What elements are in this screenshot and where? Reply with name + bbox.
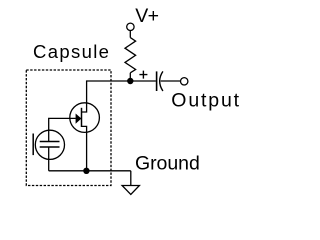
terminal V+ [127, 23, 134, 30]
terminal Output [181, 78, 188, 85]
svg-text:V+: V+ [135, 5, 158, 27]
ground symbol [122, 186, 139, 195]
transistor Q1 source lead [82, 126, 87, 132]
node B junction dot [83, 168, 89, 174]
transistor Q1 channel bar [81, 108, 83, 127]
transistor Q1 gate arrowhead [76, 114, 82, 124]
electret element top plate lead [48, 130, 50, 141]
electret element top plate [40, 141, 60, 143]
electret element membrane bar [32, 134, 34, 156]
node A junction dot [127, 78, 133, 84]
transistor Q1 drain lead [82, 103, 87, 112]
electret element bottom plate [40, 146, 60, 148]
wire transistor Q1 source to ground rail [86, 132, 88, 170]
wire node A to capacitor C1 [130, 80, 156, 82]
label + polarity of capacitor C1 [139, 71, 147, 79]
resistor R1 [125, 38, 136, 73]
wire transistor Q1 gate to electret element [49, 118, 76, 130]
capacitor C1 positive plate [156, 71, 158, 91]
capacitor C1 negative curved plate [160, 71, 163, 91]
svg-text:Output: Output [171, 89, 241, 111]
capsule dashed enclosure box [26, 70, 111, 186]
wire from resistor R1 to node A [129, 73, 131, 81]
ground rail wire [49, 170, 131, 172]
wire ground rail to ground symbol [130, 171, 132, 186]
transistor Q1 envelope circle [70, 103, 100, 133]
wire electret element bottom plate to ground rail [48, 147, 50, 171]
electret capsule element ME1 envelope circle [35, 130, 64, 159]
wire capacitor C1 to Output terminal [161, 80, 181, 82]
wire node A to transistor Q1 drain [87, 81, 131, 103]
svg-text:Ground: Ground [135, 153, 200, 175]
wire from V+ terminal to resistor R1 [129, 31, 131, 38]
svg-text:Capsule: Capsule [33, 41, 110, 62]
